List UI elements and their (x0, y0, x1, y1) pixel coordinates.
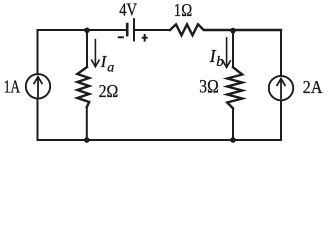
svg-text:3Ω: 3Ω (199, 78, 218, 98)
svg-text:b: b (216, 54, 224, 70)
svg-text:4V: 4V (119, 0, 137, 20)
svg-text:1Ω: 1Ω (174, 0, 192, 20)
svg-text:1A: 1A (4, 77, 21, 97)
svg-text:2Ω: 2Ω (99, 81, 119, 101)
svg-text:2A: 2A (303, 77, 323, 97)
svg-text:a: a (107, 61, 114, 76)
